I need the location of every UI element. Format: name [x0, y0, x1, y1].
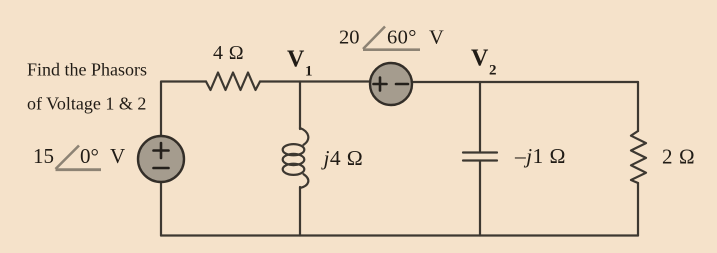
svg-text:V: V	[429, 27, 444, 49]
svg-text:V: V	[471, 46, 489, 72]
svg-text:V: V	[287, 47, 305, 73]
caption line 1	[27, 60, 147, 80]
svg-text:15: 15	[33, 144, 54, 168]
svg-text:V: V	[110, 144, 125, 168]
voltage source Vs2 20&lt;60 circle	[370, 63, 412, 105]
label inductor value j4 ohm	[321, 146, 364, 170]
wire branch V2 lower	[479, 162, 481, 236]
label source value 15 angle 0 V	[33, 144, 125, 170]
svg-text:–j1 Ω: –j1 Ω	[514, 144, 566, 168]
svg-text:Find the Phasors: Find the Phasors	[27, 60, 147, 80]
label resistor R1 value 4 ohm	[213, 42, 244, 64]
wire top right (source Vs2 to right edge)	[412, 81, 638, 83]
node V1 label	[287, 47, 313, 80]
inductor L1 j4ohm	[283, 128, 309, 188]
wire top-left segment	[161, 82, 206, 137]
svg-text:0°: 0°	[80, 144, 99, 168]
wire top middle (resistor to source Vs2)	[260, 80, 370, 82]
svg-text:20: 20	[339, 27, 360, 49]
resistor R1 4ohm	[206, 73, 260, 91]
label source value 20 angle 60 V	[339, 27, 444, 50]
svg-text:1: 1	[305, 64, 313, 80]
label capacitor value -j1 ohm	[514, 144, 566, 168]
caption line 2	[27, 94, 146, 114]
wire left vertical lower	[160, 182, 162, 236]
svg-text:j4 Ω: j4 Ω	[321, 146, 364, 170]
voltage source Vs1 15&lt;0 circle	[138, 136, 184, 182]
svg-text:of Voltage 1 & 2: of Voltage 1 & 2	[27, 94, 146, 114]
wire branch V1 lower	[299, 187, 301, 236]
wire right vertical lower	[637, 183, 639, 236]
svg-text:4 Ω: 4 Ω	[213, 42, 244, 64]
resistor R2 2ohm	[631, 131, 646, 183]
svg-text:2 Ω: 2 Ω	[662, 145, 695, 169]
svg-text:2: 2	[489, 63, 497, 79]
wire branch V1 upper	[299, 82, 301, 130]
svg-text:60°: 60°	[387, 27, 417, 49]
wire bottom	[161, 234, 638, 236]
node V2 label	[471, 46, 497, 79]
label resistor R2 value 2 ohm	[662, 145, 695, 169]
wire branch V2 upper	[479, 82, 481, 151]
capacitor C1 -j1ohm plates	[463, 153, 497, 161]
wire right vertical upper	[637, 82, 639, 131]
